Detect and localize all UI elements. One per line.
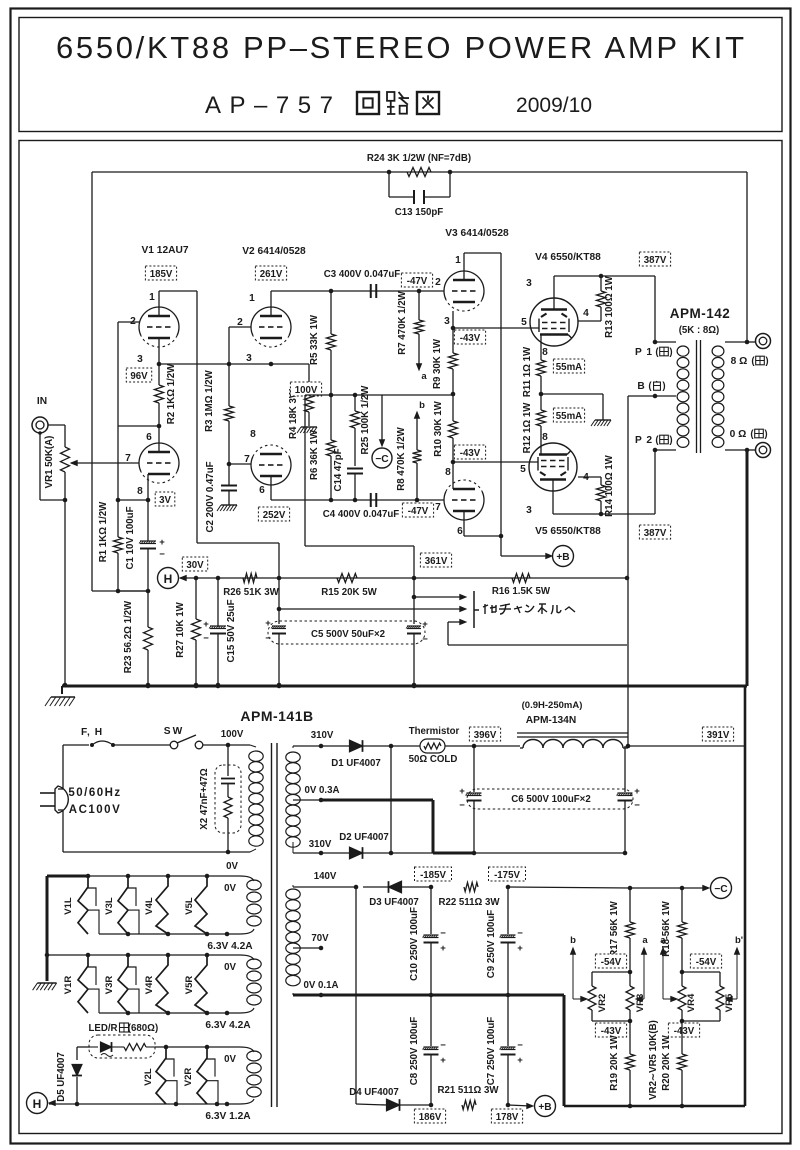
svg-text:): ) bbox=[669, 435, 672, 446]
svg-text:+: + bbox=[440, 943, 446, 954]
svg-text:R25 100K 1/2W: R25 100K 1/2W bbox=[360, 385, 371, 455]
svg-text:3: 3 bbox=[526, 278, 532, 289]
svg-text:C9 250V 100uF: C9 250V 100uF bbox=[486, 910, 497, 978]
svg-text:C8 250V 100uF: C8 250V 100uF bbox=[409, 1017, 420, 1085]
svg-text:R27 10K 1W: R27 10K 1W bbox=[175, 601, 186, 657]
svg-text:R5 33K 1W: R5 33K 1W bbox=[309, 314, 320, 365]
svg-text:C6 500V 100uF×2: C6 500V 100uF×2 bbox=[511, 794, 590, 805]
svg-text:C10 250V 100uF: C10 250V 100uF bbox=[409, 907, 420, 981]
svg-text:-43V: -43V bbox=[460, 333, 481, 344]
svg-text:4: 4 bbox=[583, 308, 589, 319]
svg-text:D3 UF4007: D3 UF4007 bbox=[369, 897, 419, 908]
svg-text:F, H: F, H bbox=[81, 727, 103, 738]
svg-text:7: 7 bbox=[435, 502, 441, 513]
svg-text:5: 5 bbox=[520, 464, 526, 475]
svg-text:C4 400V 0.047uF: C4 400V 0.047uF bbox=[323, 509, 400, 520]
svg-text:+: + bbox=[634, 786, 640, 797]
svg-text:R17 56K 1W: R17 56K 1W bbox=[609, 900, 620, 956]
svg-text:3: 3 bbox=[246, 353, 252, 364]
svg-text:3: 3 bbox=[526, 505, 532, 516]
svg-text:-185V: -185V bbox=[420, 870, 446, 881]
svg-text:R20 20K 1W: R20 20K 1W bbox=[661, 1034, 672, 1090]
svg-text:SW: SW bbox=[164, 726, 184, 737]
svg-text:V5L: V5L bbox=[184, 897, 195, 915]
svg-text:(0.9H-250mA): (0.9H-250mA) bbox=[522, 700, 583, 711]
svg-text:1: 1 bbox=[249, 293, 255, 304]
svg-text:261V: 261V bbox=[260, 269, 283, 280]
svg-text:): ) bbox=[765, 356, 768, 367]
svg-text:3V: 3V bbox=[159, 495, 171, 506]
svg-text:−: − bbox=[517, 928, 523, 939]
svg-text:-54V: -54V bbox=[696, 957, 717, 968]
svg-text:8: 8 bbox=[137, 486, 143, 497]
svg-text:178V: 178V bbox=[496, 1112, 519, 1123]
svg-text:V2 6414/0528: V2 6414/0528 bbox=[242, 246, 306, 257]
svg-text:6: 6 bbox=[146, 432, 152, 443]
svg-text:3: 3 bbox=[444, 316, 450, 327]
svg-text:R15 20K 5W: R15 20K 5W bbox=[321, 587, 377, 598]
svg-text:APM-141B: APM-141B bbox=[240, 708, 313, 724]
svg-text:100V: 100V bbox=[295, 385, 318, 396]
svg-text:R26 51K 3W: R26 51K 3W bbox=[223, 587, 279, 598]
svg-text:6.3V 4.2A: 6.3V 4.2A bbox=[207, 941, 253, 952]
svg-text:8: 8 bbox=[542, 347, 548, 358]
svg-text:391V: 391V bbox=[707, 730, 730, 741]
svg-text:7: 7 bbox=[244, 454, 250, 465]
svg-text:V5R: V5R bbox=[184, 976, 195, 995]
svg-text:V3 6414/0528: V3 6414/0528 bbox=[445, 228, 509, 239]
svg-text:): ) bbox=[764, 429, 767, 440]
svg-text:VR2∼VR5 10K(B): VR2∼VR5 10K(B) bbox=[648, 1020, 659, 1100]
svg-text:R23 56.2Ω 1/2W: R23 56.2Ω 1/2W bbox=[123, 600, 134, 673]
svg-text:R8 470K 1/2W: R8 470K 1/2W bbox=[396, 426, 407, 490]
svg-text:0V: 0V bbox=[226, 861, 238, 872]
svg-text:−: − bbox=[634, 800, 640, 811]
svg-text:6550/KT88 PP–STEREO POWER AMP: 6550/KT88 PP–STEREO POWER AMP KIT bbox=[56, 30, 744, 65]
svg-text:R22 511Ω 3W: R22 511Ω 3W bbox=[438, 897, 500, 908]
svg-text:-175V: -175V bbox=[494, 870, 520, 881]
svg-text:R19 20K 1W: R19 20K 1W bbox=[609, 1034, 620, 1090]
svg-text:a': a' bbox=[660, 935, 668, 946]
svg-text:R10 30K 1W: R10 30K 1W bbox=[433, 400, 444, 456]
svg-text:): ) bbox=[669, 347, 672, 358]
svg-text:b': b' bbox=[735, 935, 743, 946]
svg-text:VR5: VR5 bbox=[724, 993, 735, 1012]
svg-text:70V: 70V bbox=[311, 933, 329, 944]
svg-text:0V: 0V bbox=[224, 883, 236, 894]
svg-text:a: a bbox=[642, 935, 648, 946]
svg-text:V5 6550/KT88: V5 6550/KT88 bbox=[535, 526, 601, 537]
svg-text:-43V: -43V bbox=[674, 1026, 695, 1037]
svg-text:−: − bbox=[440, 1040, 446, 1051]
svg-text:3: 3 bbox=[137, 354, 143, 365]
svg-text:-54V: -54V bbox=[601, 957, 622, 968]
svg-text:+: + bbox=[159, 537, 165, 548]
svg-text:2009/10: 2009/10 bbox=[516, 94, 592, 117]
svg-text:R24 3K 1/2W (NF=7dB): R24 3K 1/2W (NF=7dB) bbox=[367, 153, 471, 164]
svg-text:AC100V: AC100V bbox=[69, 804, 121, 816]
svg-text:55mA: 55mA bbox=[556, 362, 582, 373]
svg-text:R11 1Ω 1W: R11 1Ω 1W bbox=[522, 346, 533, 397]
svg-text:+B: +B bbox=[556, 552, 569, 563]
svg-text:387V: 387V bbox=[644, 255, 667, 266]
svg-text:−: − bbox=[265, 633, 271, 644]
svg-text:b: b bbox=[570, 935, 576, 946]
svg-text:R7 470K 1/2W: R7 470K 1/2W bbox=[397, 290, 408, 354]
svg-text:V3R: V3R bbox=[104, 976, 115, 995]
svg-text:+: + bbox=[440, 1055, 446, 1066]
svg-text:8: 8 bbox=[250, 429, 256, 440]
svg-text:APM-134N: APM-134N bbox=[526, 715, 576, 726]
svg-text:−: − bbox=[203, 633, 209, 644]
svg-text:1: 1 bbox=[455, 255, 461, 266]
svg-text:−C: −C bbox=[714, 884, 728, 895]
svg-text:−: − bbox=[422, 634, 428, 645]
svg-text:V1 12AU7: V1 12AU7 bbox=[141, 245, 188, 256]
svg-text:387V: 387V bbox=[644, 528, 667, 539]
svg-text:96V: 96V bbox=[130, 371, 148, 382]
svg-text:R1 1KΩ 1/2W: R1 1KΩ 1/2W bbox=[98, 501, 109, 562]
svg-text:+: + bbox=[517, 1055, 523, 1066]
svg-text:R21 511Ω 3W: R21 511Ω 3W bbox=[437, 1085, 499, 1096]
svg-text:R16 1.5K 5W: R16 1.5K 5W bbox=[492, 586, 551, 597]
svg-text:1: 1 bbox=[149, 292, 155, 303]
svg-text:310V: 310V bbox=[309, 839, 332, 850]
svg-text:H: H bbox=[164, 572, 173, 586]
svg-text:+: + bbox=[265, 618, 271, 629]
svg-text:VR4: VR4 bbox=[686, 993, 697, 1012]
svg-text:0V: 0V bbox=[224, 962, 236, 973]
svg-text:0 Ω: 0 Ω bbox=[730, 429, 747, 440]
svg-text:6.3V 4.2A: 6.3V 4.2A bbox=[205, 1020, 251, 1031]
svg-text:V2L: V2L bbox=[143, 1068, 154, 1086]
svg-text:IN: IN bbox=[37, 396, 47, 407]
svg-text:(5K : 8Ω): (5K : 8Ω) bbox=[679, 325, 720, 336]
svg-text:D5 UF4007: D5 UF4007 bbox=[56, 1052, 67, 1102]
svg-text:APM-142: APM-142 bbox=[670, 306, 731, 321]
svg-text:140V: 140V bbox=[314, 871, 337, 882]
svg-text:(680Ω): (680Ω) bbox=[128, 1023, 158, 1034]
svg-text:310V: 310V bbox=[311, 730, 334, 741]
svg-text:8 Ω: 8 Ω bbox=[731, 356, 748, 367]
svg-text:−: − bbox=[517, 1040, 523, 1051]
svg-text:6: 6 bbox=[457, 526, 463, 537]
svg-text:): ) bbox=[662, 381, 665, 392]
svg-text:−: − bbox=[459, 800, 465, 811]
svg-text:50Ω COLD: 50Ω COLD bbox=[409, 754, 458, 765]
svg-text:185V: 185V bbox=[150, 269, 173, 280]
svg-text:−: − bbox=[159, 549, 165, 560]
svg-text:+: + bbox=[203, 619, 209, 630]
svg-text:252V: 252V bbox=[263, 510, 286, 521]
svg-text:0V 0.3A: 0V 0.3A bbox=[304, 785, 339, 796]
svg-text:D2 UF4007: D2 UF4007 bbox=[339, 832, 389, 843]
svg-text:R6 36K 1W: R6 36K 1W bbox=[309, 429, 320, 480]
svg-text:R13 100Ω 1W: R13 100Ω 1W bbox=[604, 275, 615, 337]
svg-text:0V: 0V bbox=[224, 1054, 236, 1065]
svg-text:V4L: V4L bbox=[144, 897, 155, 915]
svg-text:C1 10V 100uF: C1 10V 100uF bbox=[125, 506, 136, 569]
svg-text:C2 200V 0.47uF: C2 200V 0.47uF bbox=[205, 461, 216, 532]
svg-text:P 2: P 2 bbox=[635, 435, 653, 446]
svg-text:V4R: V4R bbox=[144, 976, 155, 995]
svg-text:50/60Hz: 50/60Hz bbox=[68, 787, 121, 799]
svg-text:V3L: V3L bbox=[104, 897, 115, 915]
svg-text:2: 2 bbox=[435, 277, 441, 288]
svg-text:100V: 100V bbox=[221, 729, 244, 740]
svg-text:+: + bbox=[517, 943, 523, 954]
svg-text:55mA: 55mA bbox=[556, 411, 582, 422]
svg-text:R3 1MΩ 1/2W: R3 1MΩ 1/2W bbox=[204, 369, 215, 431]
svg-text:396V: 396V bbox=[474, 730, 497, 741]
svg-text:VR2: VR2 bbox=[597, 994, 608, 1012]
svg-text:D4 UF4007: D4 UF4007 bbox=[349, 1087, 399, 1098]
svg-text:V2R: V2R bbox=[183, 1068, 194, 1087]
svg-text:b: b bbox=[419, 400, 425, 411]
svg-text:V4 6550/KT88: V4 6550/KT88 bbox=[535, 252, 601, 263]
svg-text:8: 8 bbox=[542, 432, 548, 443]
svg-text:C14 47pF: C14 47pF bbox=[333, 448, 344, 491]
svg-text:8: 8 bbox=[445, 467, 451, 478]
svg-text:D1 UF4007: D1 UF4007 bbox=[331, 758, 381, 769]
svg-text:0V 0.1A: 0V 0.1A bbox=[303, 980, 338, 991]
svg-text:R14 100Ω 1W: R14 100Ω 1W bbox=[604, 454, 615, 516]
svg-text:-43V: -43V bbox=[460, 448, 481, 459]
svg-text:C5 500V 50uF×2: C5 500V 50uF×2 bbox=[311, 629, 385, 640]
svg-text:R9 30K 1W: R9 30K 1W bbox=[432, 338, 443, 389]
svg-text:C15 50V 25uF: C15 50V 25uF bbox=[226, 599, 237, 662]
svg-text:186V: 186V bbox=[419, 1112, 442, 1123]
svg-text:6: 6 bbox=[259, 485, 265, 496]
svg-text:+: + bbox=[459, 786, 465, 797]
svg-text:LED/R: LED/R bbox=[88, 1023, 117, 1034]
svg-text:-47V: -47V bbox=[407, 276, 428, 287]
svg-text:B: B bbox=[637, 381, 644, 392]
svg-text:Thermistor: Thermistor bbox=[409, 726, 460, 737]
svg-text:+B: +B bbox=[538, 1102, 551, 1113]
svg-text:-47V: -47V bbox=[408, 506, 429, 517]
svg-text:-43V: -43V bbox=[601, 1026, 622, 1037]
svg-text:361V: 361V bbox=[425, 556, 448, 567]
svg-text:P 1: P 1 bbox=[635, 347, 653, 358]
svg-text:−: − bbox=[440, 928, 446, 939]
svg-text:C3 400V 0.047uF: C3 400V 0.047uF bbox=[324, 269, 401, 280]
svg-text:6.3V 1.2A: 6.3V 1.2A bbox=[205, 1111, 251, 1122]
svg-text:V1L: V1L bbox=[63, 897, 74, 915]
svg-text:C13 150pF: C13 150pF bbox=[395, 207, 444, 218]
svg-text:5: 5 bbox=[521, 317, 527, 328]
svg-text:X2 47nF+47Ω: X2 47nF+47Ω bbox=[199, 768, 210, 830]
svg-text:H: H bbox=[33, 1097, 42, 1111]
svg-text:VR1 50K(A): VR1 50K(A) bbox=[44, 436, 55, 489]
svg-text:a: a bbox=[421, 371, 427, 382]
svg-text:+: + bbox=[422, 619, 428, 630]
svg-text:−C: −C bbox=[375, 454, 389, 465]
svg-text:C7 250V 100uF: C7 250V 100uF bbox=[486, 1017, 497, 1085]
svg-text:30V: 30V bbox=[186, 560, 204, 571]
svg-text:V1R: V1R bbox=[63, 976, 74, 995]
svg-text:R12 1Ω 1W: R12 1Ω 1W bbox=[522, 402, 533, 454]
svg-text:R2 1KΩ 1/2W: R2 1KΩ 1/2W bbox=[166, 363, 177, 424]
